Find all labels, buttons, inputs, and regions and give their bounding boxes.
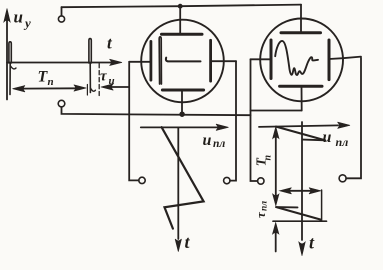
svg-text:u: u: [323, 129, 332, 146]
svg-text:u: u: [14, 8, 23, 27]
svg-text:y: y: [23, 16, 31, 31]
svg-text:п: п: [48, 76, 54, 88]
svg-text:и: и: [109, 75, 115, 87]
svg-text:пл: пл: [336, 135, 349, 149]
svg-text:п: п: [263, 155, 274, 161]
svg-text:u: u: [203, 132, 212, 149]
svg-text:пл: пл: [213, 138, 225, 150]
svg-text:пл: пл: [260, 201, 270, 211]
